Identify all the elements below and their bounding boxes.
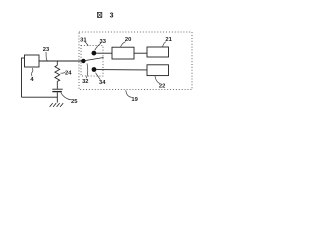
svg-text:24: 24 bbox=[65, 70, 72, 76]
svg-text:21: 21 bbox=[165, 37, 172, 43]
wire: block 4 left stub bbox=[22, 57, 25, 59]
leader for 4 bbox=[32, 68, 33, 76]
block 4 bbox=[25, 55, 40, 67]
wire: bottom return rail bbox=[22, 96, 58, 98]
leader for 24 bbox=[61, 71, 66, 74]
svg-text:25: 25 bbox=[71, 99, 78, 105]
leader for 31 bbox=[85, 42, 89, 46]
dashed enclosure 19 bbox=[79, 32, 192, 90]
figure title glyph 図 bbox=[97, 13, 101, 18]
leader for 22 bbox=[155, 76, 160, 84]
leader for 32 bbox=[86, 63, 87, 78]
leader for 25 bbox=[61, 92, 71, 100]
block 21 bbox=[147, 47, 169, 57]
leader for 34 bbox=[96, 73, 101, 80]
switch contact 34 (lower) bbox=[92, 67, 97, 72]
leader for 19 bbox=[126, 90, 132, 97]
wire: block 4 output to switch contact 32 bbox=[39, 60, 82, 62]
svg-text:3: 3 bbox=[110, 12, 114, 19]
block 20 bbox=[112, 47, 134, 59]
svg-text:23: 23 bbox=[43, 47, 50, 53]
svg-text:32: 32 bbox=[82, 79, 88, 85]
switch enclosure 31 (dotted box) bbox=[81, 46, 103, 77]
svg-text:22: 22 bbox=[159, 84, 165, 90]
switch contact 33 (upper) bbox=[92, 51, 97, 56]
svg-text:34: 34 bbox=[99, 80, 106, 86]
wire: contact 34 to block 22 bbox=[96, 69, 147, 71]
block 22 bbox=[147, 65, 169, 76]
wire: block 20 to block 21 bbox=[134, 52, 147, 54]
capacitor 25 bbox=[52, 89, 62, 102]
svg-text:31: 31 bbox=[80, 37, 87, 43]
ground bbox=[50, 103, 64, 107]
wire: contact 33 to block 20 bbox=[96, 52, 112, 54]
leader for 33 bbox=[95, 43, 101, 50]
switch contact 32 (common, left) bbox=[81, 59, 85, 63]
svg-text:33: 33 bbox=[99, 39, 106, 45]
svg-text:19: 19 bbox=[131, 97, 138, 103]
leader for 20 bbox=[121, 42, 126, 47]
svg-text:20: 20 bbox=[125, 37, 131, 43]
switch lever from contact 32 bbox=[86, 58, 104, 61]
resistor 24 bbox=[55, 61, 60, 89]
leader for 23 bbox=[46, 52, 47, 61]
wire: left vertical return bbox=[21, 58, 23, 98]
leader for 21 bbox=[163, 42, 166, 47]
